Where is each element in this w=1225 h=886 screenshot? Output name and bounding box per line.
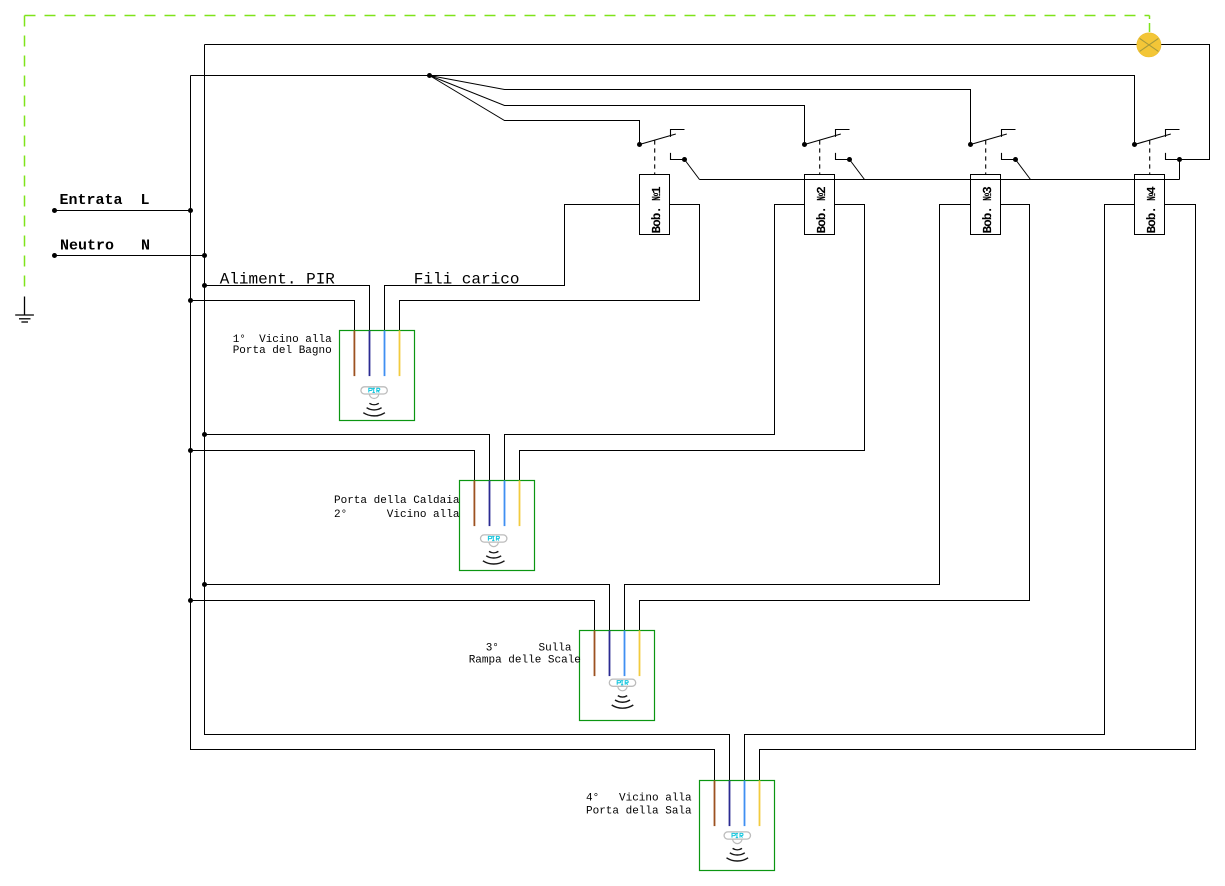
wire PIR4 blue output to coil Bob4 left [745, 205, 1135, 781]
wire neutral to lamp and switched return [205, 45, 1210, 160]
relay switch S4 [1135, 130, 1180, 175]
wire bus B (neutral) down-left, to PIR4 blue [205, 45, 730, 781]
wire PIR3 blue output to coil Bob3 left [625, 205, 971, 631]
svg-text:Aliment. PIR: Aliment. PIR [220, 271, 336, 289]
svg-text:Porta della Caldaia: Porta della Caldaia [334, 495, 460, 507]
node S3 output contact [1013, 157, 1018, 162]
wire earth dashed green horizontal [25, 15, 1150, 17]
PIR4 sensor symbol [724, 832, 750, 861]
PIR sensor 3 box [580, 631, 655, 721]
svg-text:2° Vicino alla: 2° Vicino alla [334, 509, 460, 521]
relay switch S2 [805, 130, 850, 175]
wire earth dashed green vertical [24, 16, 26, 294]
node Entrata L terminal [52, 208, 57, 213]
node S4 common [1132, 142, 1137, 147]
wire PIR3 yellow output to coil Bob3 right [640, 205, 1030, 631]
wire PIR1 yellow output to coil Bob1 right [400, 205, 700, 331]
wire bus A (live) down-left, to PIR4 brown [191, 76, 715, 781]
wire fan branch to S1 [430, 76, 640, 145]
PIR2 wire lightblue [504, 481, 506, 527]
svg-text:Porta della Sala: Porta della Sala [586, 805, 692, 817]
wire common switched output [700, 179, 1180, 181]
relay coil K1 box [640, 175, 670, 235]
PIR2 wire brown [473, 481, 475, 527]
wire fan branch to S3 [430, 76, 971, 145]
PIR4 wire blue [729, 781, 731, 827]
svg-text:3° Sulla: 3° Sulla [486, 642, 572, 654]
PIR3 wire brown [594, 631, 596, 677]
wire earth drop to lamp [1149, 16, 1151, 33]
node bus B tap PIR1 [202, 283, 207, 288]
PIR sensor 2 box [460, 481, 535, 571]
wire PIR1 blue output to coil Bob1 left [385, 205, 640, 331]
relay switch S3 [971, 130, 1016, 175]
wire neutral feed PIR3 [205, 585, 610, 631]
node junction L / bus A [188, 208, 193, 213]
wire S1 output diagonal [685, 160, 700, 180]
wire switch bus to S4 [191, 76, 1135, 145]
relay switch S1 [640, 130, 685, 175]
label Bob. N1 [651, 187, 660, 233]
svg-text:4° Vicino alla: 4° Vicino alla [586, 792, 692, 804]
node S2 common [802, 142, 807, 147]
label Bob. N2 [816, 187, 825, 233]
PIR sensor 4 box [700, 781, 775, 871]
node bus A tap PIR2 [188, 448, 193, 453]
wire live feed PIR2 [191, 451, 475, 481]
PIR1 sensor symbol [361, 387, 387, 416]
wire PIR4 yellow output to coil Bob4 right [760, 205, 1196, 781]
PIR2 sensor symbol [481, 535, 507, 564]
PIR3 wire blue [609, 631, 611, 677]
PIR1 wire yellow [399, 331, 401, 377]
wire PIR2 yellow output to coil Bob2 right [520, 205, 865, 481]
PIR3 sensor symbol [609, 679, 635, 708]
PIR3 wire lightblue [624, 631, 626, 677]
PIR4 wire yellow [759, 781, 761, 827]
PIR1 wire lightblue [384, 331, 386, 377]
label Bob. N4 [1146, 187, 1155, 233]
node bus B tap PIR3 [202, 582, 207, 587]
node fan junction [427, 73, 432, 78]
wire Neutro N [55, 255, 205, 257]
node Neutro N terminal [52, 253, 57, 258]
svg-text:Neutro N: Neutro N [60, 237, 150, 254]
svg-text:Entrata L: Entrata L [60, 192, 150, 209]
wire fan branch to S2 [430, 76, 805, 145]
node S4 output contact [1177, 157, 1182, 162]
lamp [1137, 33, 1161, 57]
wire neutral feed PIR2 [205, 435, 490, 481]
PIR1 wire blue [369, 331, 371, 377]
wire live feed PIR1 [191, 301, 355, 331]
svg-text:Porta del Bagno: Porta del Bagno [233, 345, 332, 357]
svg-text:Fili carico: Fili carico [414, 271, 520, 289]
PIR2 wire blue [489, 481, 491, 527]
svg-text:1° Vicino alla: 1° Vicino alla [233, 334, 332, 346]
wire PIR2 blue output to coil Bob2 left [505, 205, 805, 481]
PIR1 wire brown [353, 331, 355, 377]
ground [15, 297, 34, 323]
node bus A tap PIR1 [188, 298, 193, 303]
node junction N / bus B [202, 253, 207, 258]
PIR sensor 1 box [340, 331, 415, 421]
relay coil K3 box [971, 175, 1001, 235]
wire S4 output drop [1179, 160, 1181, 180]
node S1 output contact [682, 157, 687, 162]
node S2 output contact [847, 157, 852, 162]
node S3 common [968, 142, 973, 147]
relay coil K2 box [805, 175, 835, 235]
wire S3 output diagonal [1016, 160, 1031, 180]
node bus A tap PIR3 [188, 598, 193, 603]
node bus B tap PIR2 [202, 432, 207, 437]
wire Entrata L [55, 210, 191, 212]
wire live feed PIR3 [191, 601, 595, 631]
svg-text:Rampa delle Scale: Rampa delle Scale [469, 654, 581, 666]
PIR4 wire lightblue [744, 781, 746, 827]
wire S2 output diagonal [850, 160, 865, 180]
PIR4 wire brown [714, 781, 716, 827]
relay coil K4 box [1135, 175, 1165, 235]
PIR2 wire yellow [519, 481, 521, 527]
label Bob. N3 [982, 187, 991, 233]
PIR3 wire yellow [639, 631, 641, 677]
node S1 common [637, 142, 642, 147]
wire neutral feed PIR1 [205, 286, 370, 331]
